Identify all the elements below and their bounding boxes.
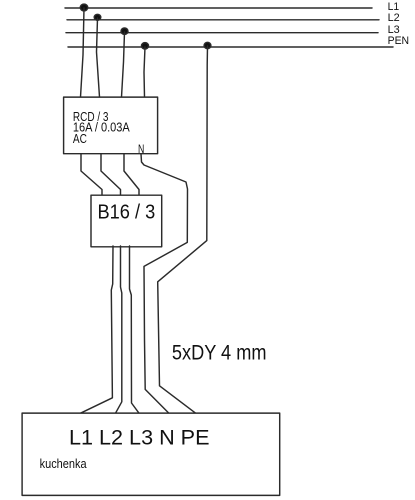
- wire L3 B16 to kuchenka: [130, 246, 140, 413]
- svg-text:5xDY 4 mm: 5xDY 4 mm: [172, 341, 267, 365]
- node on L1: [80, 4, 87, 11]
- svg-text:AC: AC: [73, 131, 87, 146]
- node N on PEN: [142, 43, 149, 49]
- svg-text:N: N: [138, 142, 144, 156]
- node on L2: [94, 14, 101, 20]
- svg-text:L1 L2 L3 N PE: L1 L2 L3 N PE: [69, 427, 210, 450]
- wire N to RCD: [144, 47, 145, 97]
- load box kuchenka: [22, 413, 280, 495]
- bus PEN: [68, 46, 393, 48]
- breaker B16: [91, 195, 162, 247]
- wire L2 to RCD: [97, 18, 100, 97]
- svg-text:B16 / 3: B16 / 3: [98, 201, 156, 224]
- bus L1: [65, 7, 372, 9]
- svg-text:PEN: PEN: [388, 35, 410, 47]
- wire L2 RCD to B16: [101, 154, 121, 197]
- bus L2: [67, 19, 379, 21]
- wire L3 RCD to B16: [124, 154, 139, 197]
- wire L2 B16 to kuchenka: [116, 246, 122, 413]
- bus L3: [66, 32, 378, 34]
- RCD U1: [64, 97, 158, 154]
- node PE on PEN: [204, 42, 211, 48]
- wire N from RCD to kuchenka: [141, 154, 188, 414]
- svg-text:kuchenka: kuchenka: [40, 456, 88, 471]
- node on L3: [121, 28, 128, 34]
- wire L3 to RCD: [122, 32, 125, 97]
- wire L1 RCD to B16: [81, 154, 102, 197]
- svg-text:L2: L2: [388, 12, 400, 24]
- wire L1 to RCD: [81, 8, 85, 97]
- wire PE from PEN bus to kuchenka: [158, 46, 208, 413]
- wire L1 B16 to kuchenka: [81, 246, 114, 413]
